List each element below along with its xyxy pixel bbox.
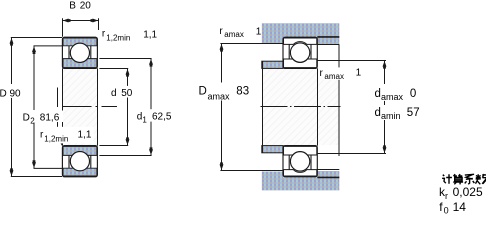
svg-text:50: 50 <box>121 88 133 99</box>
svg-text:D: D <box>199 86 207 98</box>
svg-text:amin: amin <box>381 111 401 121</box>
svg-text:57: 57 <box>407 107 420 119</box>
svg-text:amax: amax <box>224 30 244 39</box>
svg-text:83: 83 <box>236 86 249 98</box>
svg-text:1: 1 <box>142 115 147 124</box>
svg-text:0,025: 0,025 <box>453 185 483 199</box>
svg-text:r: r <box>102 28 106 39</box>
svg-text:r: r <box>445 191 448 201</box>
svg-text:0: 0 <box>444 206 449 216</box>
svg-text:amax: amax <box>208 91 231 101</box>
svg-text:D: D <box>0 88 7 99</box>
svg-text:0: 0 <box>410 88 416 100</box>
svg-text:d: d <box>375 107 381 119</box>
svg-text:d: d <box>111 88 117 99</box>
svg-text:1,2min: 1,2min <box>106 33 130 42</box>
svg-text:B: B <box>69 0 76 11</box>
svg-text:62,5: 62,5 <box>152 112 172 123</box>
svg-text:amax: amax <box>381 92 404 102</box>
svg-text:81,6: 81,6 <box>40 112 60 123</box>
svg-text:90: 90 <box>10 88 22 99</box>
svg-text:14: 14 <box>453 200 467 214</box>
svg-text:1,1: 1,1 <box>78 129 92 140</box>
svg-text:20: 20 <box>80 0 92 11</box>
svg-text:1,1: 1,1 <box>143 30 157 41</box>
svg-text:amax: amax <box>324 72 344 81</box>
svg-text:1,2min: 1,2min <box>44 134 68 143</box>
svg-text:r: r <box>219 26 223 37</box>
svg-text:1: 1 <box>356 68 362 79</box>
svg-text:D: D <box>23 113 30 124</box>
svg-text:2: 2 <box>30 117 35 126</box>
svg-text:1: 1 <box>256 26 262 37</box>
svg-text:d: d <box>375 88 381 100</box>
